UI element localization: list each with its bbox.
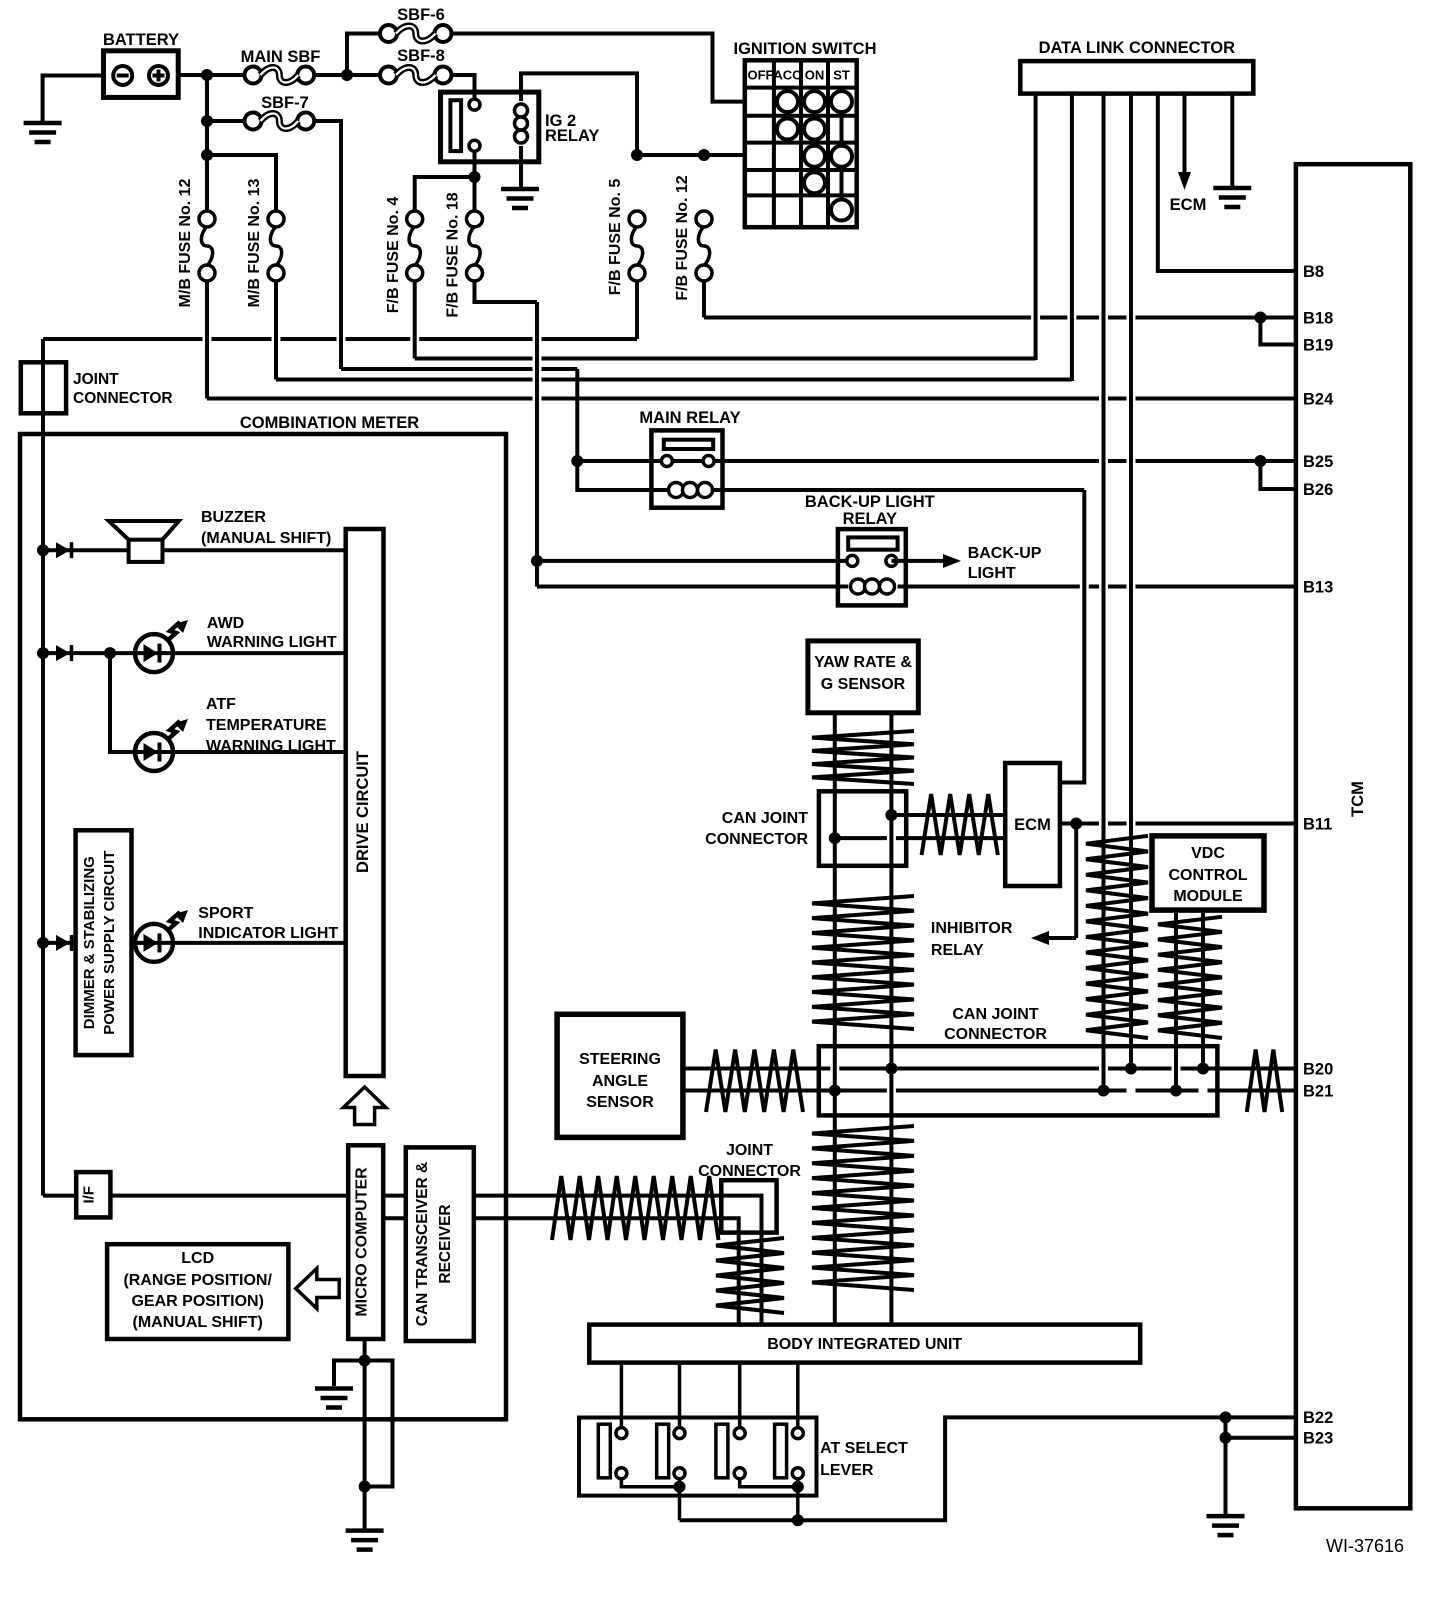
junction AT 2 [674, 1481, 686, 1493]
svg-text:F/B FUSE No. 4: F/B FUSE No. 4 [385, 197, 402, 314]
diode sport [56, 935, 72, 951]
svg-text:JOINT: JOINT [726, 1142, 773, 1159]
fuse M/B No.12 label [177, 178, 194, 307]
wire backup coil line [537, 561, 1298, 587]
svg-text:F/B FUSE No. 12: F/B FUSE No. 12 [674, 175, 691, 300]
main relay contacts [661, 456, 714, 467]
fuse M/B FUSE No. 13 [268, 211, 284, 281]
LED AWD warning light [135, 634, 173, 672]
LCD box [107, 1244, 288, 1339]
IF box [76, 1172, 110, 1217]
svg-text:RELAY: RELAY [843, 510, 897, 528]
svg-text:MICRO COMPUTER: MICRO COMPUTER [354, 1167, 371, 1317]
wire battery negative to ground [43, 76, 104, 122]
can transceiver box [406, 1147, 474, 1341]
twisted pair to ECM [922, 794, 998, 855]
fuse F/B FUSE No. 12 [696, 211, 712, 281]
can joint connector long box [819, 1046, 1218, 1115]
svg-text:BODY INTEGRATED UNIT: BODY INTEGRATED UNIT [767, 1336, 962, 1353]
label ECM top [1170, 196, 1207, 214]
LED sport indicator [135, 924, 173, 962]
fuse F/B FUSE No. 18 [467, 211, 483, 281]
fuse SBF-8 label [397, 47, 445, 65]
wire B23 elbow [1226, 1417, 1298, 1437]
wire yaw CAN left [833, 713, 837, 1325]
TCM pin B11 [1303, 815, 1332, 833]
svg-text:IGNITION SWITCH: IGNITION SWITCH [734, 40, 877, 58]
svg-text:ON: ON [805, 68, 825, 83]
svg-text:AWD: AWD [207, 615, 244, 632]
svg-text:AT SELECT: AT SELECT [820, 1440, 908, 1457]
wire to SBF-7 [207, 119, 245, 123]
svg-text:M/B FUSE No. 13: M/B FUSE No. 13 [246, 178, 263, 307]
junction canL dlc [1098, 1085, 1110, 1097]
fuse SBF-8 [380, 67, 452, 84]
svg-text:WARNING LIGHT: WARNING LIGHT [207, 634, 337, 651]
drive circuit box [346, 529, 384, 1076]
svg-text:(RANGE POSITION/: (RANGE POSITION/ [123, 1272, 272, 1289]
twisted pair DLC [1086, 836, 1148, 1038]
svg-text:INHIBITOR: INHIBITOR [931, 920, 1013, 937]
TCM pin B13 [1303, 578, 1333, 596]
svg-text:B19: B19 [1303, 336, 1333, 354]
wire micro to cant upper [383, 1194, 406, 1198]
fuse SBF-7 [245, 113, 315, 130]
TCM box [1296, 164, 1410, 1508]
backup relay contacts [847, 555, 897, 566]
can joint connector small box [819, 791, 906, 866]
relay IG2 box [441, 92, 539, 162]
junction B25/B26 [1254, 455, 1266, 467]
junction canH yaw [885, 1063, 897, 1075]
wire fuse18 to backup relay [475, 282, 538, 561]
AT select lever contacts [598, 1424, 803, 1479]
svg-text:B18: B18 [1303, 309, 1333, 327]
svg-text:RECEIVER: RECEIVER [437, 1204, 454, 1283]
wire IF to micro [43, 1194, 348, 1198]
svg-text:I/F: I/F [81, 1186, 98, 1204]
wire ignition feed [637, 153, 745, 157]
wire ground stub left [334, 1361, 365, 1387]
twisted pair yaw mid [812, 896, 914, 1029]
TCM label [1349, 781, 1367, 817]
diode buzzer [56, 542, 72, 558]
ignition switch contacts [777, 91, 852, 220]
junction B23 ground [1220, 1432, 1232, 1444]
svg-text:ACC: ACC [773, 68, 802, 83]
ignition switch column labels [748, 68, 850, 83]
svg-text:ECM: ECM [1170, 196, 1207, 214]
fuse M/B FUSE No. 12 [199, 211, 215, 281]
wire main relay contact line [577, 459, 1260, 463]
wire ECM to B11 [1060, 822, 1298, 826]
ground meter internal [315, 1389, 353, 1408]
wire main sbf to sbf-8 [314, 73, 380, 77]
wire CANT H to BIU [474, 1196, 762, 1325]
relay IG2 label [545, 112, 599, 145]
dimmer power supply box [76, 830, 132, 1055]
svg-text:JOINT: JOINT [73, 371, 119, 388]
wire VDC left [1174, 910, 1178, 1090]
svg-text:(MANUAL SHIFT): (MANUAL SHIFT) [201, 530, 331, 547]
svg-text:ATF: ATF [206, 696, 236, 713]
can transceiver label [414, 1162, 454, 1326]
junction AWD bus [37, 647, 49, 659]
wire B19 elbow [1260, 318, 1297, 345]
junction micro ground 1 [359, 1355, 371, 1367]
backup relay label [805, 493, 935, 528]
wire AT contacts 1-2 [621, 1479, 679, 1487]
fuse SBF-6 label [397, 6, 445, 24]
junction B22/B23 [1220, 1411, 1232, 1423]
junction canH vdc [1197, 1063, 1209, 1075]
arrow LCD [296, 1269, 339, 1309]
body integrated unit label [767, 1336, 962, 1353]
svg-text:TEMPERATURE: TEMPERATURE [206, 717, 327, 734]
wire AT to TCM B22 [680, 1417, 1298, 1520]
junction micro ground 2 [359, 1481, 371, 1493]
wire bus battery down [205, 75, 209, 211]
sport label [198, 905, 338, 942]
diode AWD [56, 645, 72, 661]
wire micro ground [363, 1339, 367, 1531]
wire B25 [1260, 459, 1297, 463]
svg-text:RELAY: RELAY [931, 942, 984, 959]
svg-text:GEAR POSITION): GEAR POSITION) [131, 1293, 263, 1310]
can joint connector small label [705, 810, 808, 848]
buzzer label [201, 509, 331, 547]
main relay bar [664, 440, 713, 449]
wire CAN L long [683, 1089, 1298, 1093]
ground DLC [1213, 94, 1251, 207]
joint connector left box [21, 362, 66, 413]
AWD label [207, 615, 337, 651]
wire DLC pin2 down [1070, 94, 1074, 381]
twisted pair CANT [552, 1176, 719, 1240]
micro computer label [354, 1167, 371, 1317]
lightning AWD [167, 620, 188, 641]
junction sport [37, 937, 49, 949]
steering angle sensor box [557, 1014, 683, 1137]
twisted pair yaw top [812, 731, 914, 784]
wire fuse4 to DLC1 (line A) [415, 282, 1036, 359]
wire backup contact line [537, 559, 852, 563]
diagram number [1326, 1536, 1404, 1556]
svg-text:B22: B22 [1303, 1409, 1333, 1427]
svg-text:B25: B25 [1303, 453, 1333, 471]
junction AT bottom [792, 1514, 804, 1526]
junction fuse13 branch [201, 149, 213, 161]
wire DLC to ECM arrow [1178, 94, 1191, 190]
svg-text:VDC: VDC [1191, 845, 1225, 862]
junction AT 4 [792, 1481, 804, 1493]
wire to ground B23 [1224, 1438, 1228, 1514]
wire DLC pin1 down [1034, 94, 1038, 360]
svg-text:LEVER: LEVER [820, 1462, 874, 1479]
svg-text:MAIN RELAY: MAIN RELAY [639, 409, 740, 427]
wire IG2 coil to ignition switch [521, 73, 637, 155]
svg-text:YAW RATE &: YAW RATE & [814, 654, 912, 671]
backup relay coil [851, 579, 895, 594]
svg-text:B24: B24 [1303, 390, 1334, 408]
fuse F/B FUSE No. 4 [407, 211, 423, 281]
yaw rate sensor box [808, 641, 918, 713]
wire DLC pin5 to B8 [1158, 94, 1298, 271]
svg-text:COMBINATION METER: COMBINATION METER [240, 414, 419, 432]
relay IG2 contact pins [469, 99, 480, 151]
ATF label [206, 696, 336, 755]
junction IG2 to fuse4/fuse18 [469, 171, 481, 183]
wire fuse5 to joint connector bus (line E) [43, 282, 637, 340]
micro computer box [348, 1145, 383, 1339]
junction canL yaw [829, 1085, 841, 1097]
svg-text:ANGLE: ANGLE [592, 1073, 648, 1090]
junction B18/B19 [1254, 312, 1266, 324]
junction main ignition feed [631, 149, 643, 161]
wire AWD row [43, 651, 346, 655]
wire inhibitor relay [1031, 824, 1076, 946]
svg-text:SBF-6: SBF-6 [397, 6, 445, 24]
wire AT contacts 3-4 [740, 1479, 798, 1487]
svg-text:BACK-UP LIGHT: BACK-UP LIGHT [805, 493, 935, 511]
junction sbf-6 branch [341, 69, 353, 81]
wire buzzer row [43, 548, 346, 552]
svg-text:ST: ST [833, 68, 850, 83]
svg-text:(MANUAL SHIFT): (MANUAL SHIFT) [133, 1314, 263, 1331]
joint connector left label [73, 371, 173, 407]
svg-text:DIMMER & STABILIZING: DIMMER & STABILIZING [81, 856, 98, 1029]
wire B26 elbow [1260, 461, 1297, 489]
ground B23 [1207, 1516, 1245, 1535]
main relay label [639, 409, 740, 427]
TCM pin B21 [1303, 1082, 1333, 1100]
svg-text:SBF-8: SBF-8 [397, 47, 445, 65]
junction canL vdc [1170, 1085, 1182, 1097]
yaw rate sensor label [814, 654, 912, 693]
AT select lever box [579, 1418, 817, 1496]
svg-text:SBF-7: SBF-7 [261, 94, 309, 112]
TCM pin B22 [1303, 1409, 1333, 1427]
TCM pin B19 [1303, 336, 1333, 354]
wire ATF branch [110, 653, 346, 752]
can joint connector long label [944, 1006, 1047, 1043]
junction backup feed [531, 555, 543, 567]
svg-text:F/B FUSE No. 18: F/B FUSE No. 18 [445, 192, 462, 317]
wire IG2 contact down [473, 151, 477, 210]
backup relay bar [848, 537, 897, 549]
ground meter bottom [346, 1531, 384, 1550]
steering angle sensor label [579, 1051, 661, 1111]
junction main relay feed [571, 455, 583, 467]
LCD label [123, 1250, 272, 1331]
fuse F/B No.18 label [445, 192, 462, 317]
wire bus down left [41, 339, 45, 1196]
ground IG2 relay [501, 162, 539, 208]
arrow drive circuit [343, 1087, 385, 1125]
svg-text:CONNECTOR: CONNECTOR [944, 1026, 1047, 1043]
IF label [81, 1186, 98, 1204]
twisted pair yaw bottom [812, 1126, 914, 1290]
svg-text:CONNECTOR: CONNECTOR [73, 390, 173, 407]
wire SBF-7 to main relay [314, 121, 577, 461]
combination meter box [20, 434, 506, 1419]
ground battery [24, 123, 62, 142]
fuse F/B FUSE No. 5 [629, 211, 645, 281]
battery [104, 51, 179, 98]
wire branch up to SBF-6 [347, 34, 380, 76]
junction SBF-7 branch [201, 115, 213, 127]
svg-text:CAN JOINT: CAN JOINT [952, 1006, 1038, 1023]
wire fuse4 top elbow [415, 177, 475, 211]
wire battery positive to junction [178, 73, 244, 77]
wire fuse12b to B18 (line D) [704, 282, 1298, 318]
svg-text:POWER SUPPLY CIRCUIT: POWER SUPPLY CIRCUIT [101, 851, 118, 1035]
VDC label [1168, 845, 1247, 905]
svg-text:B23: B23 [1303, 1430, 1333, 1448]
twisted pair VDC [1158, 917, 1222, 1038]
svg-text:CONNECTOR: CONNECTOR [705, 831, 808, 848]
junction buzzer [37, 544, 49, 556]
svg-text:RELAY: RELAY [545, 127, 599, 145]
svg-text:G SENSOR: G SENSOR [821, 676, 906, 693]
svg-text:BACK-UP: BACK-UP [968, 545, 1042, 562]
ECM label [1014, 816, 1051, 834]
TCM pin B25 [1303, 453, 1333, 471]
main relay coil [669, 483, 713, 498]
svg-text:OFF: OFF [748, 68, 774, 83]
wire micro to cant lower [383, 1216, 406, 1220]
wire VDC right [1201, 910, 1205, 1068]
junction battery feed [201, 69, 213, 81]
arrow to backup light [891, 554, 961, 568]
svg-text:TCM: TCM [1349, 781, 1367, 817]
backup relay box [838, 529, 906, 605]
svg-text:B11: B11 [1303, 815, 1332, 833]
svg-text:DATA LINK CONNECTOR: DATA LINK CONNECTOR [1039, 39, 1236, 57]
svg-text:BATTERY: BATTERY [103, 31, 179, 49]
fuse F/B No.4 label [385, 197, 402, 314]
svg-text:B8: B8 [1303, 263, 1324, 281]
wire can H to ECM [891, 813, 1005, 817]
svg-text:B13: B13 [1303, 578, 1333, 596]
inhibitor relay label [931, 920, 1013, 959]
wire DLC pin3 down (CAN L) [1102, 94, 1106, 1091]
wire DLC pin4 down (CAN H) [1129, 94, 1133, 1069]
buzzer speaker [109, 521, 179, 562]
svg-text:LIGHT: LIGHT [968, 565, 1016, 582]
twisted pair B20 B21 [1247, 1050, 1282, 1113]
joint connector bottom label [698, 1142, 801, 1180]
dimmer label [81, 851, 118, 1035]
fuse SBF-6 [380, 25, 452, 42]
svg-text:INDICATOR LIGHT: INDICATOR LIGHT [198, 925, 338, 942]
wire sport row [43, 941, 346, 945]
svg-text:STEERING: STEERING [579, 1051, 661, 1068]
TCM pin B18 [1303, 309, 1333, 327]
lightning sport [167, 910, 188, 931]
twisted pair steering [706, 1050, 803, 1113]
wires BIU to AT select lever [621, 1363, 797, 1428]
twisted pair JC bottom [716, 1238, 784, 1313]
fuse SBF-7 label [261, 94, 309, 112]
wire SBF-8 to IG2 relay contact [452, 75, 475, 99]
wire fuse12 to B24 (line C) [207, 282, 1298, 399]
wire CAN H long [683, 1067, 1298, 1071]
junction AWD branch [104, 647, 116, 659]
junction canH dlc [1125, 1063, 1137, 1075]
svg-text:SENSOR: SENSOR [586, 1094, 654, 1111]
svg-text:WARNING LIGHT: WARNING LIGHT [206, 738, 336, 755]
LED ATF warning light [135, 733, 173, 771]
main relay box [651, 430, 722, 507]
svg-text:F/B FUSE No. 5: F/B FUSE No. 5 [607, 179, 624, 296]
wire fuse13 to DLC2 (line B) [276, 282, 1072, 380]
TCM pin B26 [1303, 481, 1333, 499]
svg-text:LCD: LCD [181, 1250, 214, 1267]
TCM pin B24 [1303, 390, 1334, 408]
data link connector [1020, 61, 1253, 94]
svg-text:DRIVE CIRCUIT: DRIVE CIRCUIT [354, 751, 372, 873]
wire ground loop [365, 1361, 393, 1487]
AT select lever label [820, 1440, 908, 1479]
data link connector label [1039, 39, 1236, 57]
TCM pin B20 [1303, 1060, 1333, 1078]
TCM pin B23 [1303, 1430, 1333, 1448]
VDC box [1152, 836, 1264, 910]
battery label [103, 31, 179, 49]
backup light label [968, 545, 1042, 582]
fuse F/B No.5 label [607, 179, 624, 296]
ignition switch label [734, 40, 877, 58]
fuse MAIN SBF [245, 67, 315, 84]
svg-text:BUZZER: BUZZER [201, 509, 266, 526]
combination meter label [240, 414, 419, 432]
junction fuse12b branch [698, 149, 710, 161]
fuse F/B No.12 label [674, 175, 691, 300]
wire can L to ECM [835, 836, 1005, 840]
relay IG2 coil [515, 92, 528, 162]
wire branch to fuse 13 [207, 155, 276, 211]
relay IG2 contact bar [450, 100, 461, 151]
drive circuit label [354, 751, 372, 873]
svg-text:CONNECTOR: CONNECTOR [698, 1163, 801, 1180]
svg-text:CAN JOINT: CAN JOINT [722, 810, 808, 827]
wire CANT L to BIU [474, 1218, 739, 1324]
svg-text:ECM: ECM [1014, 816, 1051, 834]
wire yaw CAN right [889, 713, 893, 1325]
joint connector bottom box [721, 1180, 776, 1232]
TCM pin B8 [1303, 263, 1324, 281]
junction can L [829, 832, 841, 844]
svg-text:MODULE: MODULE [1173, 888, 1243, 905]
svg-text:B20: B20 [1303, 1060, 1333, 1078]
wire SBF-6 to ignition switch [452, 34, 745, 102]
svg-text:CONTROL: CONTROL [1168, 867, 1247, 884]
junction B11/inhibitor [1070, 818, 1082, 830]
svg-text:SPORT: SPORT [198, 905, 253, 922]
fuse M/B No.13 label [246, 178, 263, 307]
svg-text:B26: B26 [1303, 481, 1333, 499]
svg-text:CAN TRANSCEIVER &: CAN TRANSCEIVER & [414, 1162, 431, 1326]
wire main relay coil line [577, 461, 1084, 490]
fuse MAIN SBF label [241, 48, 321, 66]
junction can H [885, 809, 897, 821]
svg-text:M/B FUSE No. 12: M/B FUSE No. 12 [177, 178, 194, 307]
body integrated unit box [589, 1325, 1140, 1363]
ignition switch grid [745, 60, 857, 227]
ECM box [1005, 763, 1060, 886]
svg-text:MAIN SBF: MAIN SBF [241, 48, 321, 66]
